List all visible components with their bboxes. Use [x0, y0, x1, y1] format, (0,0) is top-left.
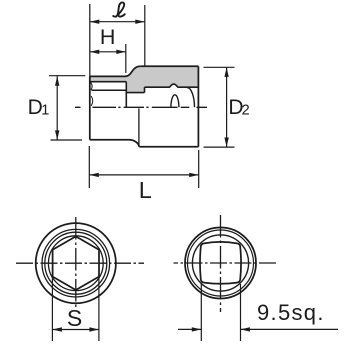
left leader	[178, 328, 201, 330]
dim l/H shared left extension line	[89, 4, 91, 76]
top edge small section	[90, 75, 125, 77]
svg-text:1: 1	[41, 103, 49, 119]
chamfer inner circle	[45, 232, 107, 294]
dim l extension right	[144, 5, 146, 66]
vertical centerline	[75, 217, 77, 308]
dim H extension right	[125, 44, 127, 73]
right face	[197, 66, 199, 147]
cross-hole arc (ball hole)	[171, 95, 179, 108]
L extension left	[88, 146, 90, 188]
body outline: left face	[89, 76, 91, 139]
horizontal centerline	[174, 262, 278, 264]
S dim line	[52, 329, 99, 331]
chamfer outer circle	[42, 229, 110, 297]
9.5 extension right	[240, 284, 242, 341]
L extension right	[198, 150, 200, 188]
dim H arrowhead right	[116, 50, 126, 54]
mid circle	[188, 230, 254, 296]
square hole entry chamfer arc upper	[91, 82, 92, 90]
dim D1 arrowhead bottom	[55, 130, 59, 140]
svg-text:S: S	[67, 305, 82, 331]
D1 extension bottom	[51, 139, 83, 141]
fillet up to large section	[125, 66, 141, 76]
hex bore entry chamfer arc	[187, 87, 195, 107]
D1 extension top	[49, 75, 85, 77]
shoulder vertical (lower half)	[138, 108, 140, 146]
D2 extension bottom	[204, 146, 235, 148]
dim 9.5sq arrowhead right	[241, 327, 250, 331]
dim D2 arrowhead top	[224, 67, 228, 77]
hex corner circle	[48, 236, 103, 291]
bottom fillet	[130, 140, 140, 147]
square hole far edge line	[92, 89, 127, 91]
outer circle	[36, 223, 116, 303]
dim H line	[90, 51, 126, 53]
outer circle	[185, 228, 256, 299]
right leader	[241, 328, 339, 330]
horizontal centerline	[16, 262, 144, 264]
hex bore top line with ball groove bump	[145, 84, 199, 87]
centerline (axis)	[75, 106, 207, 108]
dim S arrowhead left	[52, 327, 62, 331]
dim l arrowhead left	[90, 20, 100, 24]
inner circle	[192, 235, 248, 291]
square drive hole top line	[90, 81, 127, 83]
square hole entry chamfer arc lower	[91, 96, 93, 106]
svg-text:H: H	[100, 25, 116, 49]
section fill (gray cut metal)	[90, 66, 199, 92]
label l (script ell glyph)	[113, 2, 125, 16]
vertical centerline	[220, 215, 222, 312]
L dim line	[89, 174, 198, 176]
svg-text:2: 2	[242, 103, 250, 119]
9.5 extension left	[200, 284, 202, 341]
dim 9.5sq arrowhead left	[192, 327, 202, 331]
dim H arrowhead left	[90, 50, 100, 54]
top edge large section	[140, 65, 198, 67]
relief hole top line	[126, 92, 144, 94]
S extension left	[51, 277, 53, 341]
dim D2 arrowhead bottom	[224, 138, 228, 148]
square drive hole (bulged sides)	[200, 242, 241, 284]
dim l line	[90, 21, 145, 23]
dim L arrowhead left	[89, 173, 99, 177]
dim S arrowhead right	[89, 327, 99, 331]
bottom edge large section	[139, 146, 198, 148]
D1 dim line	[56, 76, 58, 140]
dim L arrowhead right	[189, 173, 199, 177]
jog to hex bore	[144, 87, 146, 92]
S extension right	[98, 277, 100, 341]
arrowheads	[55, 20, 229, 178]
D2 extension top	[204, 66, 235, 68]
dim D1 arrowhead top	[55, 76, 59, 86]
square hole end face	[125, 82, 127, 108]
hexagon	[53, 236, 99, 290]
bottom edge small section	[90, 139, 130, 141]
D2 dim line	[226, 67, 228, 147]
svg-text:L: L	[139, 177, 152, 203]
svg-text:9.5sq.: 9.5sq.	[257, 300, 325, 325]
dim l arrowhead right	[135, 20, 145, 24]
